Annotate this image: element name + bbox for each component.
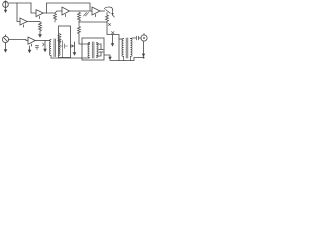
- ground stub G4: [111, 35, 114, 47]
- wire top bus: [9, 2, 31, 4]
- wire mid bus: [79, 21, 107, 23]
- output jack J3: [141, 34, 147, 42]
- transformer T2: [88, 42, 98, 58]
- shield box B2: [82, 38, 104, 60]
- wire J2 to U5: [9, 40, 28, 41]
- transistor Q1: [104, 7, 114, 17]
- resistor R4: [78, 22, 81, 34]
- wire down from mid bus: [107, 22, 119, 61]
- wire drop to U2: [31, 3, 36, 13]
- resistor R1: [39, 22, 42, 31]
- junction marks: [109, 24, 111, 26]
- wire bottom rail: [51, 57, 89, 59]
- capacitor C3 to ground: [43, 41, 47, 53]
- op-amp U1: [20, 18, 27, 27]
- wire U4 output: [100, 10, 105, 12]
- ground G1: [38, 31, 42, 38]
- op-amp U4: [92, 7, 100, 17]
- wire bottom bus: [110, 58, 144, 61]
- transformer T1: [49, 39, 60, 58]
- capacitor C2 marks: [36, 46, 39, 50]
- ground G5 below J2: [4, 43, 8, 53]
- resistor R5: [106, 15, 109, 22]
- ground G7: [73, 52, 77, 56]
- resistor R2: [54, 14, 57, 23]
- block box B1: [59, 26, 73, 58]
- transformer T3: [122, 38, 132, 61]
- capacitor C5: [131, 36, 142, 40]
- ground G8 on bottom wire: [104, 55, 112, 60]
- wire drop to U1: [17, 3, 20, 22]
- ground G9: [142, 54, 145, 57]
- wire output to ground: [143, 41, 145, 54]
- small squiggle near U4 input: [84, 13, 89, 17]
- op-amp U3: [62, 7, 70, 17]
- wire feedback top: [47, 3, 91, 13]
- resistor R3: [78, 12, 81, 22]
- wire U2 output: [44, 11, 63, 13]
- wire U1 output: [28, 21, 41, 23]
- wire U5 output: [36, 40, 51, 42]
- op-amp U2: [36, 10, 43, 19]
- wire box to ground col: [73, 45, 75, 47]
- ground G6: [28, 46, 32, 53]
- asterisk mark: [112, 32, 115, 35]
- wire to T2: [79, 34, 89, 44]
- resistor R6 inside box: [58, 34, 61, 43]
- input jack J2: [2, 35, 8, 43]
- input jack J1: [3, 1, 9, 13]
- op-amp U5: [28, 37, 35, 46]
- capacitor C4 across T2 secondary: [97, 44, 104, 56]
- wire U3 output: [70, 10, 93, 12]
